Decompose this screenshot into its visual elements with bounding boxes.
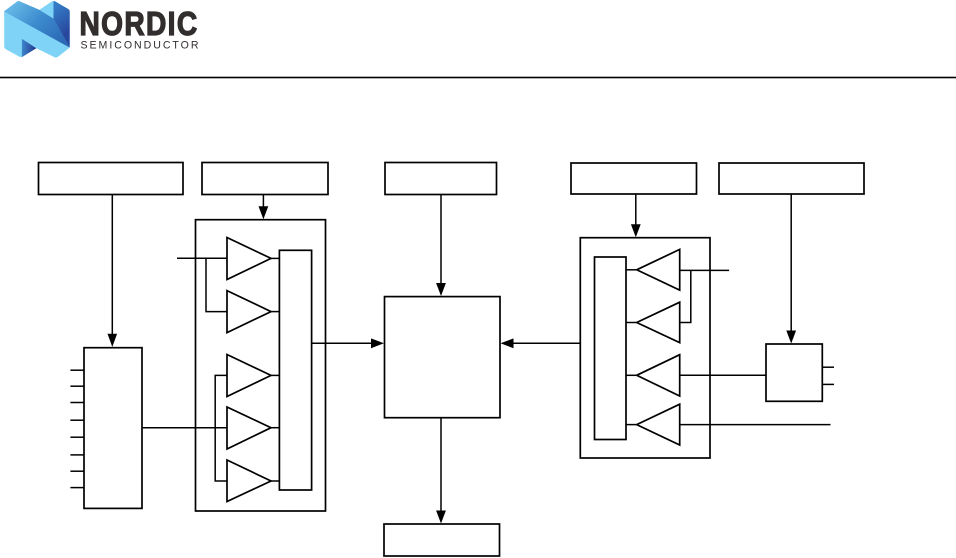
wire receiver to state machine [513,342,580,344]
wire A4 output stub [270,427,279,429]
wire B4 input [680,424,831,426]
wire box4 to receiver [635,194,637,226]
pin stub 2 [70,385,84,387]
wire B1 output stub [626,269,637,271]
wire box1 to pin box [111,195,113,336]
output square stub upper [822,366,834,368]
output square [766,344,822,401]
svg-text:NORDIC: NORDIC [80,6,199,43]
wire B2 output stub [626,322,637,324]
receiver inner register rect [595,257,627,440]
transmitter inner register rect [279,250,311,490]
arrowhead into pin box [108,334,118,347]
bottom box [384,524,500,556]
pin stub 7 [70,470,84,472]
arrowhead into output square [786,331,796,344]
buffer B3 [637,355,680,396]
buffer A2 [227,291,271,333]
wire pin box to A4 [142,427,227,429]
arrowhead into transmitter [259,206,269,219]
wire B2 input jog [680,270,691,322]
header box 4 [571,163,697,194]
header rule [0,77,956,79]
buffer A5 [227,460,271,502]
svg-text:SEMICONDUCTOR: SEMICONDUCTOR [81,39,199,51]
header box 5 [719,163,864,194]
arrowhead into state machine right [501,338,514,348]
wire A1 input stub [177,257,227,259]
buffer B2 [637,302,680,343]
wire B1 input [680,269,729,271]
wire A2 output stub [270,311,279,313]
header box 2 [202,163,328,195]
Nordic logo top notch inner face (light triangle) [39,2,53,18]
pin interface box [84,348,142,509]
header box 1 [39,163,184,195]
Nordic logo N-mark: light blue base outline [4,1,70,58]
wire A3 output stub [270,374,279,376]
pin stub 6 [70,454,84,456]
arrowhead into state machine top [436,283,446,296]
wire A3 A5 input bus [215,375,227,481]
pin stub 3 [70,402,84,404]
output square stub lower [822,383,834,385]
Nordic logo diagonal band (medium blue) [4,1,70,47]
wire B3 output stub [626,374,637,376]
arrowhead into receiver [631,224,641,237]
arrowhead into state machine left [371,338,384,348]
Nordic logo right face (dark blue) [53,1,69,48]
wire B3 to output square [680,374,766,376]
wire A5 output stub [270,480,279,482]
buffer B4 [637,404,680,445]
receiver block [580,238,710,458]
buffer A3 [227,355,271,397]
wire state machine to bottom box [440,418,442,511]
buffer B1 [637,249,680,290]
Nordic logo bottom notch inner face (dark wedge) [22,39,36,57]
state machine square [385,297,501,418]
transmitter block [196,220,326,511]
wire box2 to transmitter [262,195,264,209]
pin stub 5 [70,436,84,438]
wire A2 input drop [206,258,227,311]
wire box3 to state machine [440,195,442,285]
wire A1 output stub [270,257,279,259]
header box 3 [385,163,497,195]
buffer A4 [227,407,271,449]
pin stub 1 [70,369,84,371]
pin stub 8 [70,487,84,489]
wire transmitter to state machine [312,342,372,344]
buffer A1 [227,238,271,280]
pin stub 4 [70,419,84,421]
arrowhead into bottom box [436,511,446,524]
wire B4 output stub [626,424,637,426]
wire box5 to output square [790,194,792,332]
